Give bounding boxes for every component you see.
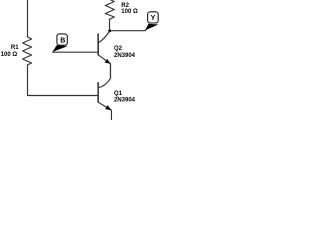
- node B flag wedge: [52, 45, 67, 52]
- svg-text:R1: R1: [11, 45, 19, 51]
- resistor R2: [105, 0, 114, 19]
- resistor R1: [23, 37, 32, 65]
- svg-text:2N3904: 2N3904: [114, 97, 136, 103]
- node Y flag wedge: [145, 24, 158, 31]
- wire R1 top: [27, 0, 29, 37]
- transistor Q1 base bar: [97, 82, 99, 103]
- wire node to Y: [110, 26, 151, 31]
- node Y flag box: [148, 12, 159, 23]
- svg-text:Q2: Q2: [114, 46, 123, 52]
- wire R1 bottom to Q1 base: [28, 65, 98, 96]
- transistor Q2 collector lead: [99, 31, 110, 42]
- Q2 emitter arrow: [105, 59, 111, 64]
- transistor Q1 emitter lead: [99, 103, 112, 120]
- transistor Q1 collector lead: [99, 64, 111, 88]
- wire R2 bottom to node: [109, 19, 111, 30]
- junction dot node: [108, 29, 111, 32]
- svg-text:Y: Y: [151, 15, 156, 22]
- node B flag box: [57, 34, 67, 45]
- Q1 emitter arrow: [105, 105, 111, 110]
- svg-text:R2: R2: [121, 3, 129, 9]
- svg-text:100 Ω: 100 Ω: [1, 52, 18, 58]
- wire B to Q2 base: [53, 51, 98, 53]
- transistor Q2 base bar: [97, 34, 99, 56]
- svg-text:Q1: Q1: [114, 91, 123, 97]
- svg-text:2N3904: 2N3904: [114, 53, 136, 59]
- svg-text:100 Ω: 100 Ω: [121, 9, 138, 15]
- svg-text:B: B: [60, 38, 65, 45]
- transistor Q2 emitter lead: [99, 55, 111, 78]
